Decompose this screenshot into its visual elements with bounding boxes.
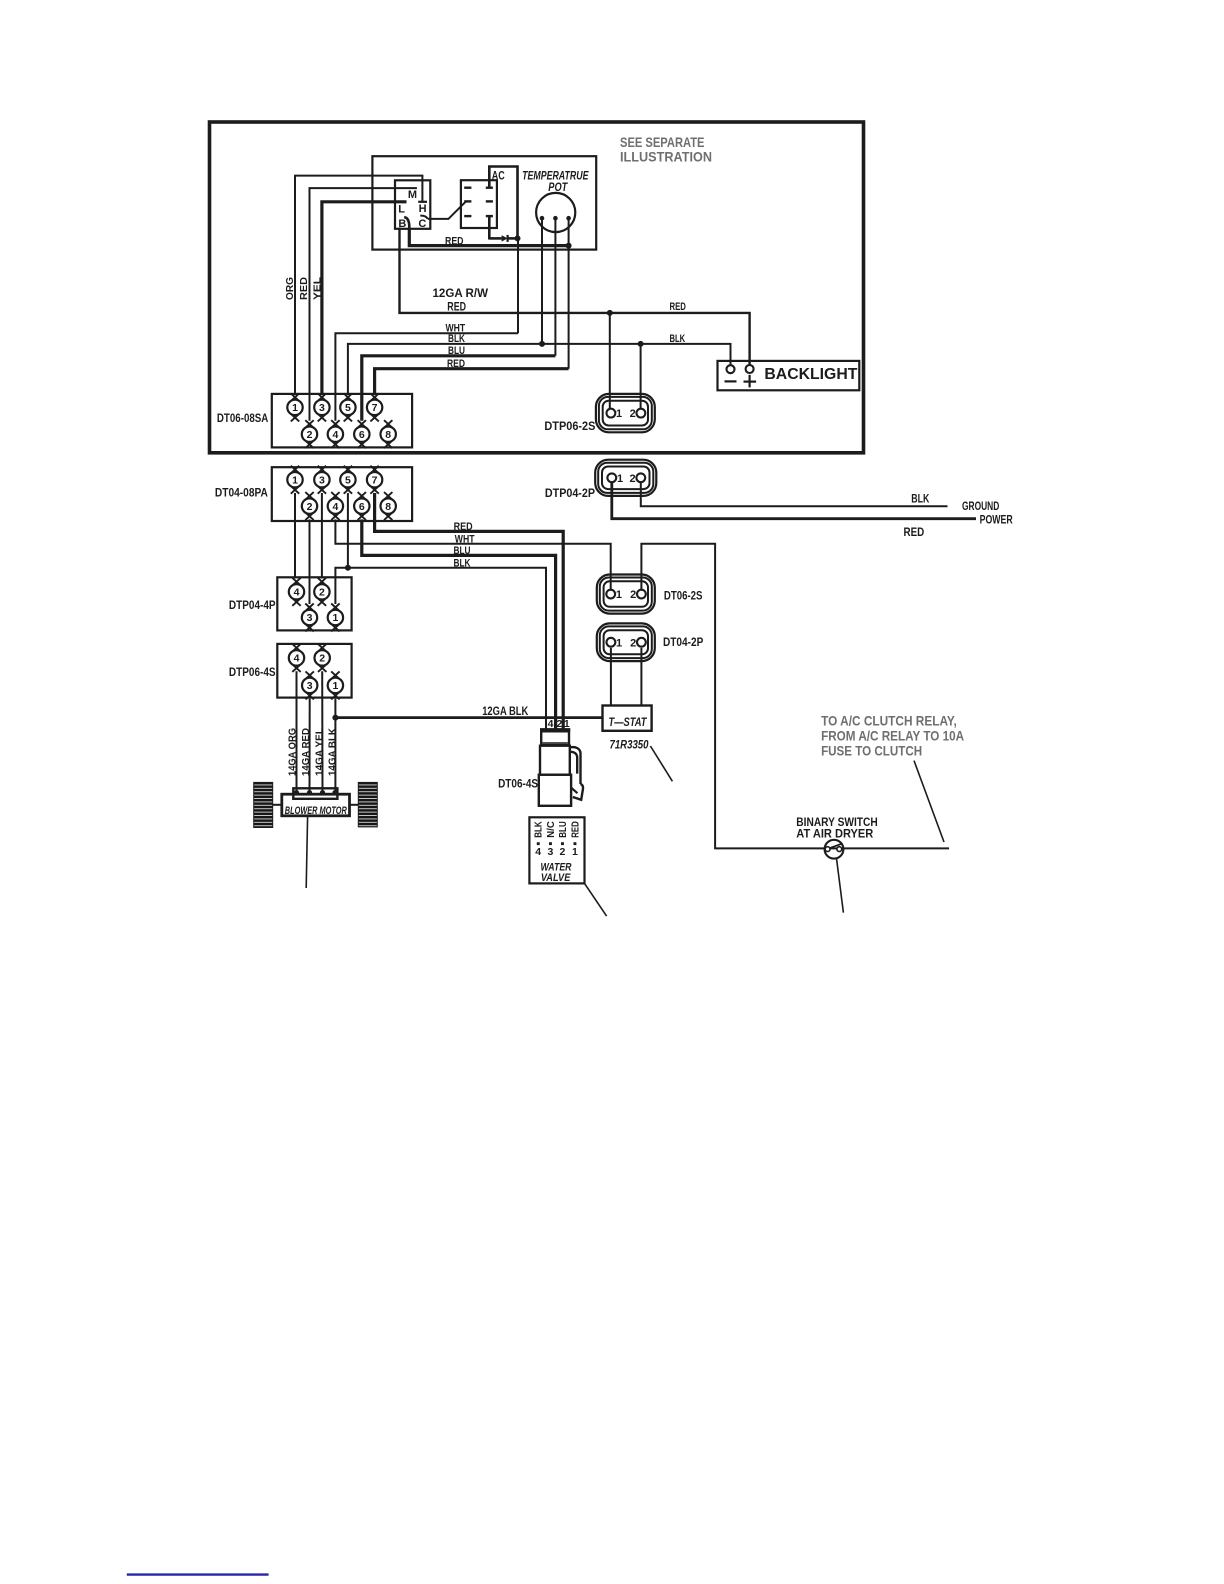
- svg-text:BLOWER MOTOR: BLOWER MOTOR: [285, 805, 347, 817]
- svg-text:1: 1: [616, 637, 622, 649]
- svg-text:DTP04-2P: DTP04-2P: [545, 488, 595, 500]
- svg-text:2: 2: [307, 501, 313, 513]
- svg-text:3: 3: [547, 846, 553, 858]
- svg-text:ORG: ORG: [285, 277, 296, 300]
- svg-text:3: 3: [319, 402, 325, 414]
- svg-text:2: 2: [630, 589, 636, 601]
- svg-text:1: 1: [332, 680, 338, 692]
- svg-text:BACKLIGHT: BACKLIGHT: [764, 366, 857, 383]
- svg-text:M: M: [408, 189, 417, 201]
- svg-text:4: 4: [332, 429, 338, 441]
- svg-text:FROM A/C RELAY TO 10A: FROM A/C RELAY TO 10A: [821, 728, 964, 744]
- svg-text:DT04-2P: DT04-2P: [663, 637, 704, 649]
- svg-text:12GA R/W: 12GA R/W: [433, 288, 489, 300]
- svg-text:1: 1: [572, 846, 578, 858]
- svg-text:RED: RED: [299, 277, 310, 300]
- svg-text:DTP04-4P: DTP04-4P: [229, 600, 276, 612]
- svg-text:2: 2: [319, 653, 325, 665]
- svg-text:L: L: [398, 204, 405, 216]
- svg-text:RED: RED: [447, 301, 466, 313]
- svg-text:RED: RED: [454, 521, 473, 533]
- svg-text:TO A/C CLUTCH RELAY,: TO A/C CLUTCH RELAY,: [821, 713, 957, 729]
- svg-text:N/C: N/C: [545, 821, 557, 838]
- svg-text:3: 3: [307, 612, 313, 624]
- svg-text:T—STAT: T—STAT: [609, 717, 648, 729]
- svg-text:4: 4: [332, 501, 338, 513]
- svg-text:1: 1: [292, 474, 298, 486]
- svg-text:4: 4: [294, 587, 300, 599]
- svg-text:8: 8: [385, 501, 391, 513]
- svg-text:RED: RED: [447, 358, 465, 370]
- svg-text:BLK: BLK: [533, 821, 545, 838]
- svg-text:DT06-08SA: DT06-08SA: [217, 413, 268, 425]
- svg-text:6: 6: [359, 429, 365, 441]
- svg-text:2: 2: [307, 429, 313, 441]
- svg-text:DTP06-4S: DTP06-4S: [229, 667, 276, 679]
- svg-text:DT06-2S: DT06-2S: [664, 590, 703, 602]
- svg-text:14GA RED: 14GA RED: [300, 728, 312, 776]
- svg-text:1: 1: [616, 408, 622, 420]
- svg-text:4: 4: [535, 846, 541, 858]
- svg-text:2: 2: [630, 408, 636, 420]
- svg-text:12GA BLK: 12GA BLK: [482, 706, 529, 718]
- svg-text:BLU: BLU: [557, 821, 569, 838]
- svg-text:DTP06-2S: DTP06-2S: [544, 421, 595, 433]
- svg-text:14GA YEL: 14GA YEL: [313, 727, 325, 776]
- svg-text:RED: RED: [445, 236, 464, 248]
- svg-text:GROUND: GROUND: [962, 501, 999, 513]
- svg-text:YEL: YEL: [313, 277, 324, 300]
- svg-text:3: 3: [307, 680, 313, 692]
- svg-text:BINARY SWITCH: BINARY SWITCH: [796, 817, 877, 829]
- svg-text:BLK: BLK: [911, 493, 930, 505]
- svg-text:AC: AC: [492, 170, 505, 182]
- svg-text:BLU: BLU: [448, 345, 465, 357]
- svg-text:1: 1: [292, 402, 298, 414]
- svg-text:RED: RED: [569, 821, 581, 838]
- svg-text:POT: POT: [548, 180, 568, 194]
- svg-text:2: 2: [630, 637, 636, 649]
- svg-text:DT04-08PA: DT04-08PA: [215, 487, 268, 499]
- svg-text:RED: RED: [670, 301, 686, 313]
- svg-text:1: 1: [616, 589, 622, 601]
- svg-text:RED: RED: [904, 527, 925, 539]
- svg-text:3: 3: [319, 474, 325, 486]
- svg-text:POWER: POWER: [980, 514, 1014, 526]
- svg-text:DT06-4S: DT06-4S: [498, 778, 538, 790]
- svg-text:2: 2: [559, 846, 565, 858]
- svg-text:71R3350: 71R3350: [610, 739, 649, 751]
- svg-text:14GA ORG: 14GA ORG: [286, 728, 298, 776]
- svg-text:8: 8: [385, 429, 391, 441]
- svg-text:4: 4: [294, 653, 300, 665]
- svg-text:2: 2: [630, 473, 636, 485]
- svg-text:5: 5: [345, 474, 351, 486]
- svg-text:H: H: [419, 203, 427, 215]
- svg-text:ILLUSTRATION: ILLUSTRATION: [620, 149, 712, 165]
- svg-text:AT AIR DRYER: AT AIR DRYER: [796, 829, 874, 841]
- svg-text:1: 1: [617, 473, 623, 485]
- svg-text:5: 5: [345, 402, 351, 414]
- svg-text:2: 2: [319, 587, 325, 599]
- svg-text:6: 6: [359, 501, 365, 513]
- svg-text:BLU: BLU: [454, 545, 471, 557]
- svg-text:VALVE: VALVE: [541, 872, 571, 884]
- svg-text:BLK: BLK: [448, 333, 465, 345]
- svg-text:FUSE TO CLUTCH: FUSE TO CLUTCH: [821, 743, 922, 759]
- svg-text:14GA BLK: 14GA BLK: [326, 728, 338, 776]
- svg-text:7: 7: [372, 474, 378, 486]
- svg-text:C: C: [418, 218, 426, 230]
- svg-text:1: 1: [332, 612, 338, 624]
- svg-text:BLK: BLK: [670, 333, 686, 345]
- svg-text:7: 7: [372, 402, 378, 414]
- svg-text:WHT: WHT: [455, 534, 475, 546]
- svg-text:BLK: BLK: [454, 558, 471, 570]
